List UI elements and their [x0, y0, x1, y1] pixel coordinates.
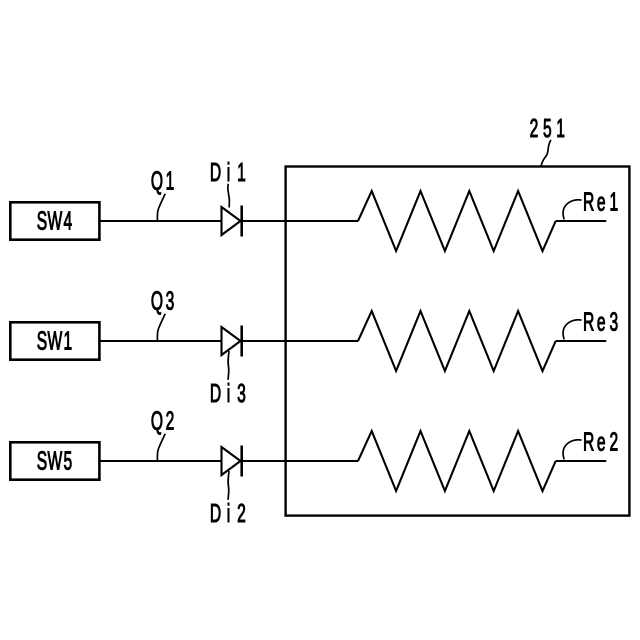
leader line for label Q1 [157, 194, 165, 221]
label Re1 [583, 187, 618, 216]
leader line for label Di1 [228, 184, 230, 208]
label 251 [530, 114, 565, 143]
svg-text:D: D [210, 158, 221, 187]
leader line for label Re1 [563, 200, 581, 220]
svg-text:e: e [597, 307, 606, 336]
switch SW4 box [10, 202, 99, 239]
svg-text:i: i [227, 499, 230, 528]
label Q1 [151, 166, 174, 195]
svg-text:i: i [227, 158, 230, 187]
leader line for label Q3 [157, 314, 165, 341]
svg-text:2: 2 [237, 499, 246, 528]
svg-text:Q: Q [151, 166, 163, 195]
svg-text:R: R [583, 427, 594, 456]
resistor Re2 [358, 431, 556, 491]
label SW1 [37, 326, 73, 355]
svg-text:D: D [210, 379, 221, 408]
svg-text:1: 1 [237, 158, 246, 187]
svg-text:3: 3 [237, 379, 246, 408]
svg-text:W: W [48, 326, 63, 355]
diode Di1 [222, 206, 242, 237]
wire SW5 to diode Di2 [99, 460, 222, 462]
diode Di2 [222, 446, 242, 477]
resistor block 251 outline [286, 167, 630, 516]
wire diode Di1 to resistor Re1 [242, 220, 359, 222]
switch SW5 box [10, 442, 99, 479]
svg-text:S: S [37, 446, 47, 475]
wire diode Di2 to resistor Re2 [242, 460, 359, 462]
wire SW4 to diode Di1 [99, 220, 222, 222]
label Di1 [210, 158, 246, 187]
label Di2 [210, 499, 246, 528]
resistor Re1 [358, 191, 556, 251]
wire resistor Re3 output [556, 340, 607, 342]
svg-text:e: e [597, 427, 606, 456]
svg-text:W: W [48, 446, 63, 475]
leader line for label Di3 [227, 351, 230, 380]
svg-text:S: S [37, 326, 47, 355]
svg-text:5: 5 [543, 114, 552, 143]
svg-text:D: D [210, 499, 221, 528]
label Q2 [151, 406, 174, 435]
svg-text:4: 4 [64, 206, 73, 235]
svg-text:5: 5 [64, 446, 73, 475]
svg-text:i: i [227, 379, 230, 408]
svg-text:W: W [48, 206, 63, 235]
svg-text:1: 1 [64, 326, 73, 355]
switch SW1 box [10, 322, 99, 359]
wire resistor Re1 output [556, 220, 607, 222]
leader line for label Di2 [227, 471, 230, 500]
label Di3 [210, 379, 246, 408]
svg-text:1: 1 [556, 114, 565, 143]
diode Di3 [222, 326, 242, 357]
svg-text:2: 2 [530, 114, 539, 143]
leader line for label Re2 [563, 440, 581, 460]
leader line for label Q2 [157, 434, 165, 461]
svg-text:Q: Q [151, 406, 163, 435]
label SW5 [37, 446, 73, 475]
wire diode Di3 to resistor Re3 [242, 340, 359, 342]
svg-text:1: 1 [609, 187, 618, 216]
svg-text:R: R [583, 187, 594, 216]
svg-text:R: R [583, 307, 594, 336]
leader line for label 251 [541, 140, 551, 166]
label Re3 [583, 307, 618, 336]
svg-text:3: 3 [166, 286, 175, 315]
leader line for label Re3 [563, 320, 581, 340]
svg-text:2: 2 [166, 406, 175, 435]
label SW4 [37, 206, 73, 235]
label Q3 [151, 286, 174, 315]
svg-text:2: 2 [609, 427, 618, 456]
svg-text:Q: Q [151, 286, 163, 315]
wire SW1 to diode Di3 [99, 340, 222, 342]
svg-text:1: 1 [166, 166, 175, 195]
wire resistor Re2 output [556, 460, 607, 462]
svg-text:e: e [597, 187, 606, 216]
label Re2 [583, 427, 618, 456]
svg-text:S: S [37, 206, 47, 235]
resistor Re3 [358, 311, 556, 371]
svg-text:3: 3 [609, 307, 618, 336]
